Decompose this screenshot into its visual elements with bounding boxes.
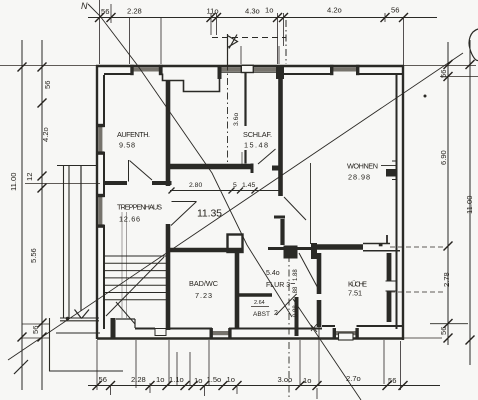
svg-text:56: 56: [439, 70, 448, 78]
svg-text:1o: 1o: [194, 376, 202, 385]
svg-text:3.6o: 3.6o: [233, 113, 240, 126]
exterior steps L: [49, 318, 123, 371]
right dim chain inner: [447, 42, 449, 345]
stairs treads: [104, 256, 166, 300]
svg-text:0.88: 0.88: [293, 305, 299, 317]
wall abst north: [238, 293, 272, 296]
left dim chain outer: [21, 40, 23, 390]
svg-text:WOHNEN: WOHNEN: [347, 162, 378, 171]
bottom dim chain: [88, 385, 440, 387]
svg-text:2.80: 2.80: [189, 182, 202, 189]
door kueche swing: [299, 253, 320, 292]
interior dim line hall: [170, 190, 282, 192]
revision curve right edge: [469, 29, 478, 61]
wall V1 treppenhaus east / aufenth east: [166, 81, 171, 331]
window LW1 left: [96, 124, 105, 155]
svg-text:1o: 1o: [265, 6, 273, 15]
window W4 top: [330, 65, 359, 75]
svg-text:ABST: ABST: [253, 311, 270, 318]
pier kueche northwest: [311, 243, 317, 259]
svg-text:5: 5: [233, 182, 237, 189]
wall inner bottom segments: [135, 326, 404, 329]
thin inner line schlaf north: [221, 71, 276, 73]
top dim chain: [88, 17, 437, 19]
right extension lines: [404, 66, 478, 339]
svg-text:BAD/WC: BAD/WC: [189, 279, 218, 288]
svg-text:15.48: 15.48: [244, 141, 268, 150]
balcony rails left: [64, 166, 70, 318]
svg-text:TREPPENHAUS: TREPPENHAUS: [117, 203, 162, 212]
svg-text:56: 56: [31, 326, 40, 334]
svg-text:5.56: 5.56: [29, 248, 38, 263]
wall inner left segments: [103, 75, 105, 329]
leader flur: [291, 283, 296, 285]
leader wohnen: [381, 165, 396, 167]
svg-text:12.66: 12.66: [119, 215, 140, 224]
svg-text:4.2o: 4.2o: [327, 6, 342, 15]
svg-text:56: 56: [391, 6, 399, 15]
svg-text:AUFENTH.: AUFENTH.: [117, 130, 150, 139]
wall schlaf partial west: [244, 73, 246, 164]
window BW1 bottom (bath): [210, 328, 232, 339]
dim underline abst: [251, 306, 269, 308]
wall inner right segments: [396, 75, 398, 329]
wall V3 kueche west: [317, 253, 322, 327]
left dim chain inner: [41, 40, 43, 390]
svg-text:12: 12: [25, 173, 34, 181]
stub schlaf-wohnen: [272, 166, 281, 171]
svg-text:.88: .88: [293, 286, 299, 295]
svg-text:11.35: 11.35: [197, 208, 222, 220]
crease diagonal B: [8, 53, 463, 360]
svg-text:2.28: 2.28: [127, 7, 142, 16]
right dim chain outer: [469, 40, 471, 365]
svg-text:N: N: [81, 1, 88, 11]
niche kueche east: [386, 281, 397, 291]
svg-text:KÜCHE: KÜCHE: [348, 280, 367, 289]
threshold x mark: [311, 324, 317, 332]
door abst swing: [276, 294, 297, 315]
svg-text:SCHLAF.: SCHLAF.: [243, 130, 272, 139]
wall V2 schlaf-wohnen: [278, 78, 283, 196]
crease diagonal C: [293, 299, 361, 400]
door treppenhaus swing: [171, 202, 197, 226]
window W3 top: [254, 65, 284, 79]
wall H6 flur south-east link: [268, 247, 316, 250]
door wohnen swing: [284, 197, 306, 220]
svg-text:FLUR 3: FLUR 3: [266, 282, 290, 289]
svg-text:56: 56: [99, 375, 107, 384]
wall V5 bad east: [235, 253, 240, 329]
svg-text:1o: 1o: [303, 376, 311, 385]
window W2 top: [218, 66, 242, 79]
top extension lines: [100, 0, 404, 65]
stub flur: [274, 216, 285, 219]
svg-text:56: 56: [388, 376, 396, 385]
svg-text:28.98: 28.98: [348, 173, 370, 182]
wall outer left: [96, 65, 98, 339]
survey symbol top: [228, 34, 238, 66]
crease diagonal A: [88, 4, 292, 317]
svg-text:11.00: 11.00: [465, 196, 474, 214]
exterior stair arrow: [75, 166, 90, 319]
svg-text:56: 56: [43, 81, 52, 89]
wall H3 wohnen south: [313, 244, 363, 250]
wall H1 aufenth south: [103, 181, 172, 185]
svg-text:11o: 11o: [207, 7, 219, 16]
balcony top edge: [57, 165, 97, 167]
flur dim dashdot: [288, 255, 290, 399]
svg-text:2.7o: 2.7o: [346, 374, 361, 383]
vent box bottom: [155, 329, 166, 336]
svg-text:56: 56: [439, 327, 448, 335]
svg-text:3.oo: 3.oo: [278, 375, 293, 384]
wall H4 bad north: [167, 248, 243, 253]
svg-text:5.4o: 5.4o: [266, 270, 280, 277]
window LW2 left: [96, 194, 105, 228]
junction dot: [66, 317, 70, 321]
svg-text:1o: 1o: [156, 375, 164, 384]
flue bad: [228, 235, 243, 253]
door aufenth leaf: [129, 160, 153, 182]
ink dot: [424, 95, 427, 98]
wall V2b flur east: [280, 219, 284, 245]
wall H2 schlaf south: [170, 164, 251, 170]
wall abst east: [295, 297, 299, 336]
svg-text:1.45: 1.45: [242, 182, 255, 189]
wall outer right: [402, 65, 404, 340]
radiator right wall: [386, 169, 397, 177]
svg-text:11.00: 11.00: [9, 173, 18, 191]
wall inner top segments: [104, 73, 404, 75]
niche step inner top wall: [163, 74, 220, 92]
svg-text:1.88: 1.88: [293, 269, 299, 281]
thin line wohnen west: [310, 163, 312, 244]
svg-text:1.5o: 1.5o: [207, 375, 222, 384]
stairs guide lines: [122, 212, 127, 318]
door nib wohnen south: [379, 244, 383, 246]
schlaf dim dashdot: [227, 49, 229, 168]
svg-text:56: 56: [101, 7, 109, 16]
left extension lines: [0, 66, 100, 339]
svg-text:4.3o: 4.3o: [245, 7, 260, 16]
svg-text:7.51: 7.51: [348, 289, 362, 298]
wall outer top: [96, 65, 404, 67]
svg-text:6.90: 6.90: [439, 150, 448, 165]
flue block flur: [284, 246, 298, 259]
bottom extension lines: [97, 327, 401, 399]
window BW2 bottom (kitchen): [333, 328, 359, 339]
pier box between W2 W3: [241, 65, 253, 72]
svg-text:2: 2: [274, 310, 278, 317]
dashed balcony above: [212, 37, 286, 39]
kitchen window sill: [339, 333, 354, 340]
svg-text:9.58: 9.58: [119, 141, 135, 150]
svg-text:2.28: 2.28: [131, 375, 146, 384]
svg-text:7.23: 7.23: [195, 291, 212, 300]
radiator jamb marks: [392, 161, 398, 180]
svg-text:2.64: 2.64: [254, 300, 265, 306]
door leaf wohnen south: [386, 235, 388, 243]
svg-text:4.2o: 4.2o: [41, 127, 50, 142]
stairs cut diagonal: [106, 257, 164, 316]
svg-text:1o: 1o: [227, 375, 235, 384]
entrance step bottom-left: [111, 318, 116, 338]
crease B end slash: [14, 360, 28, 374]
kueche east furring wall: [387, 253, 392, 322]
door schlaf swing: [258, 149, 276, 164]
wall outer bottom: [97, 337, 404, 339]
svg-text:1.1o: 1.1o: [169, 375, 184, 384]
window W1 top: [130, 65, 162, 75]
svg-text:2.78: 2.78: [442, 272, 451, 287]
entrance door swing: [116, 302, 135, 324]
